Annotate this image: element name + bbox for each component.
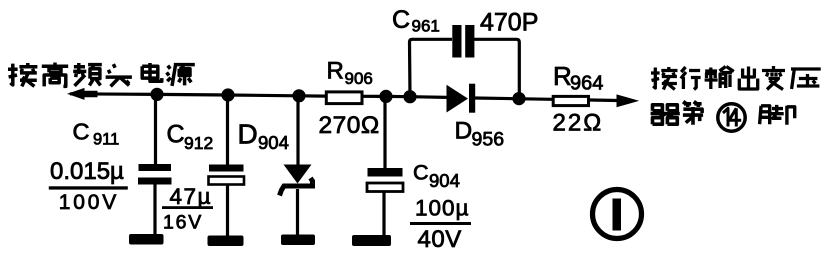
label C961 bbox=[392, 6, 440, 36]
label R906 bbox=[327, 58, 373, 88]
junction dot (C911 tap) bbox=[150, 88, 163, 101]
pin number 14 (circled) bbox=[718, 104, 745, 131]
wire: down to D904 bbox=[296, 96, 299, 166]
net label: jiao (pin) bbox=[760, 105, 795, 125]
svg-text:100V: 100V bbox=[59, 191, 119, 214]
wire: down to C904 bbox=[383, 96, 386, 169]
wire: C911 to ground bbox=[153, 185, 156, 236]
junction dot (C912 tap) bbox=[221, 88, 234, 101]
capacitor C912 (electrolytic, + plate solid / - plate hollow) bbox=[209, 165, 245, 185]
diode D956 bbox=[447, 84, 476, 113]
svg-text:C: C bbox=[73, 119, 90, 145]
resistor R964 bbox=[553, 96, 588, 105]
svg-text:911: 911 bbox=[93, 131, 119, 149]
wire: C961 tap to D956 anode bbox=[410, 95, 447, 99]
label C912 bbox=[167, 121, 214, 154]
capacitor C961 bbox=[452, 25, 474, 58]
wire: D904 to ground bbox=[296, 189, 299, 236]
capacitor C904 (electrolytic) bbox=[367, 168, 403, 192]
svg-text:956: 956 bbox=[472, 129, 505, 151]
ground (C912) bbox=[208, 236, 244, 247]
svg-text:470P: 470P bbox=[480, 8, 538, 36]
label D904 bbox=[238, 118, 289, 153]
label D956 bbox=[455, 118, 505, 151]
junction dot (C961 left / D956 anode) bbox=[403, 90, 416, 103]
svg-text:100µ: 100µ bbox=[415, 196, 470, 221]
svg-text:904: 904 bbox=[429, 170, 460, 191]
wire: R906 right to C961 tap bbox=[363, 95, 410, 99]
svg-text:904: 904 bbox=[258, 132, 289, 153]
resistor R906 bbox=[326, 92, 362, 104]
junction dot (C961 right / R964 left) bbox=[512, 92, 525, 105]
left arrow (to tuner supply) bbox=[69, 89, 98, 100]
svg-text:R: R bbox=[327, 58, 344, 85]
svg-text:0.015µ: 0.015µ bbox=[50, 158, 124, 185]
capacitor C911 bbox=[138, 164, 172, 185]
ground (D904) bbox=[281, 235, 315, 246]
svg-text:270Ω: 270Ω bbox=[319, 112, 380, 139]
label C904 bbox=[413, 160, 460, 191]
value C911 0.015u/100V bbox=[49, 158, 128, 214]
svg-text:D: D bbox=[238, 118, 258, 149]
zener diode D904 bbox=[280, 165, 313, 196]
wire: C912 to ground bbox=[226, 185, 229, 238]
svg-text:964: 964 bbox=[570, 73, 603, 95]
circled numeral I (figure mark) bbox=[593, 190, 642, 239]
svg-text:40V: 40V bbox=[418, 226, 462, 253]
net label line 1: to line-output transformer (jie xing shu chu bian ya) bbox=[651, 66, 821, 90]
svg-text:906: 906 bbox=[345, 69, 373, 88]
svg-text:C: C bbox=[167, 121, 185, 149]
ground (C904) bbox=[352, 235, 391, 246]
junction dot (D904 tap) bbox=[292, 89, 305, 102]
svg-text:912: 912 bbox=[184, 133, 213, 153]
svg-text:C: C bbox=[413, 160, 429, 184]
ground (C911) bbox=[129, 234, 164, 245]
wire: down to C912 bbox=[226, 95, 229, 166]
svg-text:961: 961 bbox=[412, 17, 440, 36]
svg-text:R: R bbox=[553, 61, 572, 91]
svg-text:D: D bbox=[455, 118, 473, 145]
svg-text:C: C bbox=[392, 6, 410, 34]
net label: to tuner power supply (jie gao pin tou dian yuan) bbox=[8, 63, 195, 87]
right arrow (to flyback pin 14) bbox=[617, 95, 638, 107]
value C904 100u/40V bbox=[410, 196, 471, 254]
wire: R964 right to output arrow bbox=[590, 98, 625, 102]
value C912 47u/16V bbox=[162, 184, 213, 234]
net label line 2: ...qi di (14) jiao = transformer pin 14 bbox=[651, 101, 704, 125]
label R964 bbox=[553, 61, 603, 95]
svg-text:22Ω: 22Ω bbox=[553, 110, 604, 137]
wire: C904 to ground bbox=[382, 192, 385, 238]
svg-text:16V: 16V bbox=[163, 212, 203, 234]
wire: C961 loop (left riser, top, right riser) bbox=[410, 39, 520, 98]
junction dot (C904 tap) bbox=[379, 90, 392, 103]
svg-text:47µ: 47µ bbox=[170, 184, 213, 209]
wire: D956 cathode to R964 left bbox=[475, 98, 552, 99]
wire: down to C911 bbox=[154, 94, 157, 165]
wire: main horizontal supply rail bbox=[70, 94, 325, 96]
label C911 bbox=[73, 119, 120, 149]
